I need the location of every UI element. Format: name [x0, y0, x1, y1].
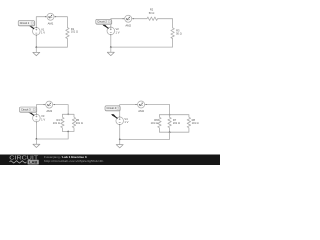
svg-text:http://circuitlab.com/c6j2e4g5: http://circuitlab.com/c6j2e4g5hdc4b [44, 159, 104, 163]
wire AM3 to parallel block [53, 105, 68, 115]
CircuitLab logo [9, 156, 39, 165]
svg-text:Circuit 2: Circuit 2 [97, 20, 107, 24]
resistor R6 [158, 117, 161, 127]
resistor R5 [72, 117, 75, 127]
wire R1 to bottom rail [36, 39, 67, 48]
wire top bar C3 [62, 114, 74, 117]
annotation box Circuit 4 [105, 106, 120, 118]
wire bottom bar C3 [62, 128, 74, 132]
svg-text:1 V: 1 V [41, 31, 45, 35]
voltage source V4 [116, 117, 129, 126]
ground G2 [107, 47, 114, 56]
svg-text:1 V: 1 V [124, 120, 128, 124]
wire bottom bar C4 [159, 128, 189, 133]
wire top bar C4 [159, 115, 189, 118]
ammeter AM3 [44, 101, 55, 113]
ammeter AM2 [123, 15, 134, 27]
annotation box Circuit 1 [18, 21, 35, 29]
svg-text:101 Ω: 101 Ω [151, 121, 158, 125]
annotation box Circuit 2 [96, 19, 112, 28]
svg-text:201 Ω: 201 Ω [173, 121, 180, 125]
wire block to bottom rail C3 [36, 132, 68, 140]
wire V1 to AM1 [36, 17, 47, 28]
svg-text:Circuit 4: Circuit 4 [107, 106, 117, 110]
ammeter AM1 [45, 13, 56, 25]
junction node gnd2 [110, 46, 112, 48]
wire V3 to AM3 [36, 105, 45, 115]
voltage source V3 [33, 114, 46, 123]
resistor R3 [171, 28, 174, 39]
junction node gnd3 [36, 138, 38, 140]
resistor R4 [61, 117, 64, 127]
svg-text:Circuit 3: Circuit 3 [21, 108, 31, 112]
svg-text:LAB: LAB [29, 160, 37, 165]
junction top bar C3 [67, 113, 69, 115]
wire V1 to ground node [35, 35, 37, 47]
wire V4 to ground node [119, 125, 121, 140]
wire bar to R7 top [169, 115, 171, 118]
footer bar [0, 155, 220, 166]
svg-text:1 V: 1 V [116, 30, 120, 34]
wire V3 to ground node [35, 122, 37, 139]
wire AM2 to R2 [132, 18, 147, 20]
svg-text:101 Ω: 101 Ω [192, 121, 199, 125]
voltage source V2 [107, 27, 120, 36]
svg-text:101 Ω: 101 Ω [71, 30, 78, 34]
wire V2 to AM2 [111, 19, 125, 27]
svg-text:AM4: AM4 [138, 109, 144, 113]
svg-text:201 Ω: 201 Ω [76, 121, 83, 125]
label R3 [176, 29, 182, 36]
wire R2 to R3 [158, 19, 173, 28]
svg-text:50 Ω: 50 Ω [176, 32, 182, 36]
voltage source V1 [33, 27, 46, 36]
wire V4 to AM4 [120, 105, 138, 117]
svg-text:AM2: AM2 [125, 23, 131, 27]
junction node gnd1 [35, 46, 37, 48]
annotation box Circuit 3 [20, 107, 37, 115]
resistor R7 [168, 117, 171, 127]
label R1 [71, 27, 78, 34]
junction bottom bar C4 [169, 131, 171, 133]
label R7 [173, 118, 180, 125]
svg-text:101 Ω: 101 Ω [53, 121, 60, 125]
ammeter AM4 [135, 101, 146, 113]
svg-text:1 V: 1 V [41, 118, 45, 122]
svg-text:AM3: AM3 [46, 109, 52, 113]
wire AM4 to parallel block [145, 105, 170, 115]
label R6 [151, 118, 159, 125]
wire V2 to ground node [110, 35, 112, 47]
wire AM1 to R1 [54, 17, 68, 28]
ground G3 [33, 139, 40, 148]
resistor R1 [66, 28, 69, 39]
junction node gnd4 [119, 139, 121, 141]
label R8 [192, 118, 199, 125]
ground G4 [116, 139, 123, 148]
svg-text:50 Ω: 50 Ω [149, 11, 155, 15]
wire R3 to bottom rail [111, 39, 173, 48]
svg-text:Circuit 1: Circuit 1 [20, 21, 30, 25]
label R4 [53, 118, 61, 125]
junction bottom bar C3 [67, 131, 69, 133]
ground G1 [33, 47, 40, 56]
junction top bar C4 [169, 114, 171, 116]
svg-text:AM1: AM1 [48, 21, 54, 25]
resistor R2 [147, 17, 158, 20]
label R5 [76, 118, 83, 125]
wire block to bottom rail C4 [120, 132, 170, 139]
resistor R8 [187, 117, 190, 127]
